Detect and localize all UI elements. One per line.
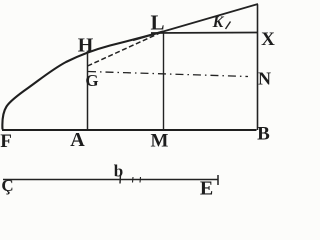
dash-dot line G-N	[88, 72, 248, 77]
svg-text:K: K	[212, 14, 225, 31]
tick at b on bottom segment	[119, 175, 122, 184]
small hash ticks on bottom segment	[133, 177, 141, 183]
end tick at E on bottom segment	[217, 175, 219, 185]
right vertical line B-X top	[257, 5, 259, 131]
tick near K on line L-X	[226, 22, 231, 30]
svg-text:A: A	[70, 129, 85, 151]
tangent line through L to top-right corner	[133, 4, 258, 40]
horizontal line L-X	[151, 32, 258, 35]
svg-text:G: G	[85, 71, 98, 90]
svg-text:N: N	[258, 69, 271, 89]
svg-text:B: B	[257, 124, 270, 145]
curve F-H-L (main curve)	[2, 32, 163, 130]
svg-text:E: E	[200, 178, 213, 200]
svg-text:Ç: Ç	[1, 176, 13, 195]
svg-text:H: H	[78, 35, 94, 57]
svg-text:M: M	[151, 131, 169, 152]
dashed chord G-L	[88, 32, 163, 66]
vertical line M-L	[163, 32, 165, 131]
svg-text:F: F	[0, 131, 12, 152]
svg-text:L: L	[150, 11, 164, 35]
baseline F-A-M-B	[2, 129, 257, 131]
svg-text:X: X	[261, 29, 275, 50]
svg-text:b: b	[114, 162, 123, 181]
bottom segment line c-b-E	[3, 179, 218, 181]
vertical line A-H	[87, 52, 89, 131]
